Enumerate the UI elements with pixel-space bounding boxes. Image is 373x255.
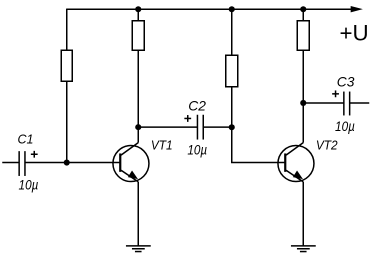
wire: R2 bottom to VT1 collector node (137, 50, 139, 142)
node: rail junction for R4 (300, 6, 306, 12)
polarity + of C2 (184, 115, 191, 122)
node: input node (R1 / C1 / VT1 base) (64, 160, 70, 166)
svg-text:VT1: VT1 (151, 139, 173, 153)
node: rail junction for R2 (135, 6, 141, 12)
node: VT1 collector node (135, 124, 141, 130)
wire: rail to R3 (231, 9, 233, 56)
node: VT2 collector / C3 node (300, 100, 306, 106)
wire: VT2 emitter to ground (302, 182, 304, 246)
polarity + of C3 (332, 90, 339, 97)
wire: VT1 emitter to ground (137, 182, 139, 246)
wire: rail corner down to R1 (66, 9, 68, 51)
resistor R4 (297, 21, 309, 51)
node: C2 / R3 / VT2 base node (229, 124, 235, 130)
transistor VT2 (278, 143, 314, 182)
capacitor C1 (2, 151, 120, 176)
+U supply arrow (351, 6, 363, 12)
svg-text:10µ: 10µ (19, 176, 39, 192)
capacitor C2 (138, 115, 232, 140)
wire: R1 bottom to input node (66, 81, 68, 162)
polarity + of C1 (31, 151, 38, 158)
wire: R4 bottom to VT2 collector node (302, 50, 304, 142)
capacitor C3 (303, 92, 369, 116)
svg-text:+U: +U (339, 21, 368, 46)
ground (VT1 emitter) (126, 246, 151, 252)
transistor VT1 (113, 143, 149, 182)
wire: R3 bottom to C2 node (231, 87, 233, 128)
resistor R3 (226, 55, 238, 87)
ground (VT2 emitter) (291, 246, 316, 252)
resistor R1 (61, 50, 72, 81)
wire: +U supply rail (67, 8, 352, 10)
svg-text:C1: C1 (17, 133, 33, 147)
svg-text:10µ: 10µ (187, 141, 207, 157)
wire: rail to R4 (302, 9, 304, 21)
node: rail junction for R3 (229, 6, 235, 12)
wire: rail to R2 (137, 9, 139, 21)
wire: node down and right to VT2 base (232, 127, 286, 162)
resistor R2 (132, 21, 144, 51)
svg-text:VT2: VT2 (316, 139, 338, 153)
svg-text:10µ: 10µ (335, 118, 355, 134)
svg-text:C3: C3 (337, 75, 355, 90)
svg-text:C2: C2 (188, 98, 206, 113)
